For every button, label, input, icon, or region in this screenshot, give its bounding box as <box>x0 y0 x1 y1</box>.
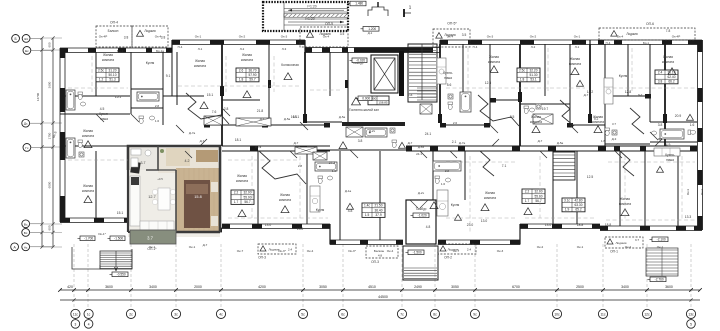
svg-text:Ок-4: Ок-4 <box>617 35 624 39</box>
svg-text:42.80: 42.80 <box>575 198 583 202</box>
envelope steps <box>171 40 173 53</box>
svg-text:59.7: 59.7 <box>249 78 255 82</box>
svg-text:Ок-3: Ок-3 <box>497 249 504 253</box>
svg-text:24.1: 24.1 <box>416 152 422 156</box>
svg-text:1750: 1750 <box>48 132 52 139</box>
svg-text:2.8: 2.8 <box>155 104 160 108</box>
svg-text:3.8: 3.8 <box>358 139 363 143</box>
svg-text:Ок-3*: Ок-3* <box>348 249 357 253</box>
table apt 2.2 left <box>231 190 254 204</box>
svg-text:-2.760: -2.760 <box>655 278 664 282</box>
svg-text:ниша: ниша <box>100 117 108 121</box>
svg-text:57.90: 57.90 <box>249 73 257 77</box>
balcony 4.8 x366 <box>366 246 398 258</box>
svg-text:36.70: 36.70 <box>249 68 257 72</box>
svg-text:Жс: Жс <box>24 37 29 41</box>
plant bedroom corner <box>213 150 217 154</box>
bath cluster x433 bottom apt <box>433 161 461 171</box>
svg-text:62.40: 62.40 <box>668 75 676 79</box>
svg-text:4.2: 4.2 <box>185 159 190 163</box>
svg-text:13.0: 13.0 <box>481 219 488 223</box>
svg-text:3.8: 3.8 <box>161 36 166 40</box>
svg-text:Л-1: Л-1 <box>198 47 203 51</box>
bottom wall colored apt bedroom <box>176 227 222 229</box>
svg-text:комната: комната <box>484 196 496 200</box>
svg-text:32.00: 32.00 <box>244 191 252 195</box>
svg-text:Гс: Гс <box>25 146 29 150</box>
svg-text:1.7: 1.7 <box>525 199 530 203</box>
svg-text:комната: комната <box>236 179 248 183</box>
svg-text:Д-5а: Д-5а <box>284 117 291 121</box>
svg-text:Ок-4: Ок-4 <box>323 35 330 39</box>
svg-text:Д-5а: Д-5а <box>557 141 564 145</box>
interior horizontal walls mid <box>60 95 130 97</box>
svg-text:Л-1: Л-1 <box>575 45 580 49</box>
svg-text:Жилая: Жилая <box>485 191 495 195</box>
svg-text:19.7: 19.7 <box>542 107 549 111</box>
svg-text:Д-7: Д-7 <box>294 141 299 145</box>
svg-text:2500: 2500 <box>576 285 584 289</box>
table apt 2.2 right <box>522 189 545 203</box>
svg-text:9с: 9с <box>473 312 477 316</box>
svg-text:Л-3: Л-3 <box>282 47 287 51</box>
svg-text:Д-7: Д-7 <box>538 139 543 143</box>
svg-text:Д-7а: Д-7а <box>255 145 262 149</box>
bedroom upper stripe <box>166 148 190 166</box>
svg-text:Балкон: Балкон <box>108 29 119 33</box>
staircase top <box>408 44 437 102</box>
svg-text:Ок-3*: Ок-3* <box>278 249 287 253</box>
svg-text:Д-3: Д-3 <box>612 137 617 141</box>
svg-text:13.0: 13.0 <box>545 223 552 227</box>
svg-text:53.1: 53.1 <box>530 78 536 82</box>
apt balcony <box>130 230 176 244</box>
bottom wall x330-403 <box>330 239 403 241</box>
svg-text:3600: 3600 <box>665 285 673 289</box>
svg-text:2.5с: 2.5с <box>519 68 525 72</box>
svg-text:П-4: П-4 <box>178 45 183 49</box>
svg-text:Жилая: Жилая <box>531 115 541 119</box>
svg-text:18.8: 18.8 <box>605 223 612 227</box>
left axis circles <box>12 35 20 43</box>
svg-text:3.7: 3.7 <box>612 122 616 126</box>
svg-text:5с: 5с <box>301 312 305 316</box>
bath cluster x315 bottom-left apts <box>315 162 337 171</box>
kitchen counters apt <box>130 176 140 226</box>
svg-text:27.3: 27.3 <box>329 161 336 165</box>
svg-text:1.4с: 1.4с <box>364 204 370 208</box>
svg-text:Кухня-: Кухня- <box>665 153 675 157</box>
svg-text:2.5с: 2.5с <box>98 68 104 72</box>
svg-text:-0.550: -0.550 <box>117 273 126 277</box>
svg-text:31.20: 31.20 <box>109 68 117 72</box>
svg-text:12.7: 12.7 <box>148 195 155 199</box>
svg-text:комната: комната <box>279 198 291 202</box>
svg-text:Ок-3: Ок-3 <box>686 189 690 195</box>
svg-text:комната: комната <box>530 120 542 124</box>
svg-text:51.30: 51.30 <box>530 73 538 77</box>
svg-text:3.7: 3.7 <box>635 238 640 242</box>
svg-text:13.0: 13.0 <box>265 223 272 227</box>
ramp lanes <box>284 8 348 10</box>
loggia box x433 <box>433 29 470 47</box>
svg-text:Д-7: Д-7 <box>638 93 643 97</box>
svg-text:Кухня: Кухня <box>146 61 155 65</box>
svg-text:3600: 3600 <box>105 285 113 289</box>
svg-text:7.1: 7.1 <box>502 164 507 168</box>
balcony box OP-4 <box>96 26 132 47</box>
bottom wall x520-600 <box>520 223 600 225</box>
svg-text:2с: 2с <box>129 312 133 316</box>
apt walls <box>128 146 220 232</box>
svg-text:1с: 1с <box>87 312 91 316</box>
bottom wall x600-702 <box>600 225 702 227</box>
svg-text:3.8: 3.8 <box>124 36 129 40</box>
svg-text:Ок-7: Ок-7 <box>453 249 460 253</box>
svg-text:Балкон: Балкон <box>374 249 385 253</box>
svg-text:16.1: 16.1 <box>291 115 298 119</box>
loggia 2.4 x258 <box>258 244 296 254</box>
svg-text:Ок-1: Ок-1 <box>574 35 581 39</box>
svg-text:Дс: Дс <box>24 122 28 126</box>
total dimension 44500 <box>60 299 700 301</box>
svg-text:i=1:20: i=1:20 <box>307 5 316 9</box>
svg-text:-1.020: -1.020 <box>418 214 427 218</box>
svg-text:Бр-1: Бр-1 <box>117 49 123 53</box>
svg-text:2.6: 2.6 <box>453 121 458 125</box>
outside stair bottom-right <box>646 248 678 276</box>
svg-text:12.5: 12.5 <box>485 81 492 85</box>
svg-text:50.10: 50.10 <box>109 73 117 77</box>
bath cluster x433 top <box>460 92 471 112</box>
svg-text:3050: 3050 <box>451 285 459 289</box>
closet xbox x204 <box>204 116 222 125</box>
bathroom floor <box>130 148 158 170</box>
mid wall piers <box>204 123 210 128</box>
svg-text:Жилая: Жилая <box>663 55 673 59</box>
svg-text:8с: 8с <box>433 312 437 316</box>
svg-text:7.8: 7.8 <box>666 29 671 33</box>
svg-text:Д-7: Д-7 <box>408 141 413 145</box>
kitchen strip x308 bottom <box>310 186 320 212</box>
svg-text:Д-7а: Д-7а <box>189 131 196 135</box>
svg-text:2.8: 2.8 <box>224 107 229 111</box>
svg-text:2.8: 2.8 <box>408 93 413 97</box>
outside stair bottom-left <box>72 247 132 269</box>
svg-text:Колясочная: Колясочная <box>281 63 299 67</box>
svg-text:Жилая: Жилая <box>280 193 290 197</box>
bottom axis circles <box>71 309 80 318</box>
corridor wall piers <box>138 146 144 151</box>
bath cluster x365 corridor <box>365 128 387 137</box>
svg-text:Ок-2: Ок-2 <box>239 35 246 39</box>
kitchen strip x604 right block <box>604 78 613 104</box>
svg-text:13с: 13с <box>688 312 694 316</box>
svg-text:Жилая: Жилая <box>103 53 113 57</box>
bottom dimension line <box>60 289 700 291</box>
svg-text:Ок-4: Ок-4 <box>447 35 454 39</box>
svg-text:12с: 12с <box>644 312 650 316</box>
triangles <box>84 196 92 203</box>
loggia box x300 <box>300 27 348 47</box>
kitchen bottom counter apt <box>140 221 174 230</box>
tv stand <box>130 161 140 173</box>
svg-text:1.480: 1.480 <box>355 2 363 6</box>
svg-text:Ок-1: Ок-1 <box>577 245 584 249</box>
section mark 1 <box>403 9 405 17</box>
svg-text:8.5: 8.5 <box>510 115 515 119</box>
svg-text:ОП-1*: ОП-1* <box>147 247 157 251</box>
svg-text:ОП-5*: ОП-5* <box>447 22 457 26</box>
svg-text:-0.020: -0.020 <box>356 59 365 63</box>
svg-text:6с: 6с <box>341 312 345 316</box>
svg-text:51.3: 51.3 <box>109 78 115 82</box>
svg-text:9.1: 9.1 <box>166 74 171 78</box>
svg-text:Кухня: Кухня <box>316 208 325 212</box>
bath cluster right block <box>660 129 684 139</box>
table apt 3.1c <box>562 198 585 212</box>
bath fixtures apt <box>131 149 141 155</box>
svg-text:12.5: 12.5 <box>587 175 594 179</box>
svg-text:15.1: 15.1 <box>115 95 122 99</box>
elevator shaft <box>371 55 398 93</box>
svg-text:55.00: 55.00 <box>535 194 543 198</box>
svg-text:1.8: 1.8 <box>239 78 244 82</box>
svg-text:Кухня: Кухня <box>451 203 460 207</box>
svg-text:Д-7: Д-7 <box>584 93 589 97</box>
svg-text:5: 5 <box>690 322 692 326</box>
corridor double walls <box>130 145 218 147</box>
svg-text:Кухня-: Кухня- <box>99 112 109 116</box>
svg-text:комната: комната <box>488 60 500 64</box>
table corner 2.4 <box>655 70 678 84</box>
ramp border <box>263 2 348 31</box>
elevation markers mid <box>352 58 367 63</box>
svg-text:Ас: Ас <box>24 245 28 249</box>
svg-text:Жилая: Жилая <box>237 174 247 178</box>
interior vertical walls bottom <box>95 151 97 218</box>
svg-text:3.7: 3.7 <box>141 161 146 165</box>
svg-text:Жилая: Жилая <box>195 59 205 63</box>
table hall <box>368 96 389 105</box>
svg-text:600: 600 <box>48 225 52 230</box>
svg-text:2.4: 2.4 <box>288 248 293 252</box>
svg-text:i=1:20: i=1:20 <box>305 17 314 21</box>
svg-text:158.85: 158.85 <box>378 101 388 105</box>
svg-text:63.30: 63.30 <box>575 203 583 207</box>
svg-text:4.8: 4.8 <box>378 254 383 258</box>
svg-text:15.8: 15.8 <box>194 195 201 199</box>
svg-text:2.2: 2.2 <box>234 191 239 195</box>
svg-text:18.8: 18.8 <box>577 223 584 227</box>
svg-text:Жилая: Жилая <box>83 184 93 188</box>
svg-text:ниша: ниша <box>666 158 674 162</box>
svg-text:-1.500: -1.500 <box>114 237 123 241</box>
ramp arrows <box>288 9 344 11</box>
svg-text:Л-2: Л-2 <box>531 45 536 49</box>
svg-text:14700: 14700 <box>36 92 40 101</box>
svg-text:комната: комната <box>194 64 206 68</box>
svg-text:П-4: П-4 <box>473 45 478 49</box>
svg-text:Кухня: Кухня <box>619 74 628 78</box>
svg-text:3: 3 <box>75 322 77 326</box>
svg-text:2000: 2000 <box>194 285 202 289</box>
bedroom wood floor <box>176 168 220 232</box>
loggia 2.4 x438 <box>438 244 476 254</box>
svg-text:11с: 11с <box>600 312 605 316</box>
interior vertical walls top <box>95 52 97 96</box>
svg-text:П-4: П-4 <box>606 41 611 45</box>
svg-text:комната: комната <box>82 189 94 193</box>
svg-text:18.1: 18.1 <box>235 138 242 142</box>
svg-text:0.000: 0.000 <box>362 97 370 101</box>
svg-text:1.9: 1.9 <box>565 208 570 212</box>
svg-text:6000: 6000 <box>48 181 52 188</box>
bath cluster x525 top <box>524 106 529 109</box>
door diagonals corridor <box>185 151 192 158</box>
outer wall top E x590-702 y40 <box>590 39 702 41</box>
bedroom plank lines <box>178 168 180 232</box>
svg-text:Ок-1*: Ок-1* <box>98 232 107 236</box>
svg-text:4200: 4200 <box>258 285 266 289</box>
bath cluster x604 right mid <box>605 128 610 131</box>
outer wall top C x305-440 y47 <box>305 47 440 49</box>
closet boxes <box>295 147 317 154</box>
svg-text:Ок-1: Ок-1 <box>189 245 196 249</box>
svg-text:15.1: 15.1 <box>207 93 214 97</box>
outer wall top A x60-172 y48 <box>60 47 172 49</box>
svg-text:3600: 3600 <box>48 81 52 88</box>
svg-text:6700: 6700 <box>512 285 520 289</box>
svg-text:Ок-2: Ок-2 <box>537 245 544 249</box>
svg-text:20.9: 20.9 <box>675 114 682 118</box>
svg-text:4.5: 4.5 <box>100 107 105 111</box>
svg-text:56.7: 56.7 <box>244 200 250 204</box>
svg-text:Ес: Ес <box>25 49 29 53</box>
hallway floor <box>158 148 218 173</box>
table apt 2.5c right <box>517 68 540 82</box>
svg-text:1.2: 1.2 <box>99 78 104 82</box>
svg-text:Л-2: Л-2 <box>240 47 245 51</box>
svg-text:Ок-3: Ок-3 <box>281 35 288 39</box>
svg-text:3.8: 3.8 <box>658 80 663 84</box>
svg-text:4с: 4с <box>219 312 223 316</box>
svg-text:1.7: 1.7 <box>234 200 239 204</box>
svg-text:56.7: 56.7 <box>535 199 541 203</box>
svg-text:3400: 3400 <box>149 285 157 289</box>
table apt 2.5c left <box>96 68 119 82</box>
svg-text:21.8: 21.8 <box>257 109 264 113</box>
svg-text:Гостинно-жилой зал: Гостинно-жилой зал <box>349 108 379 112</box>
svg-text:12.8: 12.8 <box>625 90 632 94</box>
svg-text:2.2: 2.2 <box>525 190 530 194</box>
svg-text:4: 4 <box>88 322 90 326</box>
svg-text:3.8: 3.8 <box>658 123 663 127</box>
svg-text:5.6: 5.6 <box>447 83 452 87</box>
outer wall top D x440-590 y40 <box>440 39 590 41</box>
dining table <box>158 188 170 210</box>
svg-text:Д-1а: Д-1а <box>345 189 352 193</box>
svg-text:Д-7: Д-7 <box>203 243 208 247</box>
svg-text:1.6: 1.6 <box>332 169 337 173</box>
svg-text:21.50: 21.50 <box>375 204 383 208</box>
svg-text:Жилая: Жилая <box>83 129 93 133</box>
svg-text:66.2: 66.2 <box>668 80 674 84</box>
kitchen right corner <box>654 148 680 156</box>
svg-text:+0.5: +0.5 <box>157 177 163 181</box>
right outer wall <box>697 40 699 230</box>
svg-text:Ок-3: Ок-3 <box>487 35 494 39</box>
svg-text:комната: комната <box>241 58 253 62</box>
vestibule <box>406 200 436 244</box>
svg-text:Лоджия: Лоджия <box>626 32 638 36</box>
loggia band OP-6 <box>599 28 695 40</box>
svg-text:3с: 3с <box>174 312 178 316</box>
svg-text:комната: комната <box>82 134 94 138</box>
svg-text:Д-7: Д-7 <box>260 117 265 121</box>
bottom wall left block <box>60 217 130 219</box>
svg-text:Лоджия: Лоджия <box>144 29 156 33</box>
svg-text:1.8: 1.8 <box>520 78 525 82</box>
svg-text:3.7: 3.7 <box>147 236 153 241</box>
svg-text:-1.500: -1.500 <box>413 251 422 255</box>
corridor dark band <box>342 122 405 126</box>
svg-text:Д-5а: Д-5а <box>339 115 346 119</box>
svg-text:13.0: 13.0 <box>297 227 304 231</box>
zigzag apartment boundaries <box>186 93 229 124</box>
svg-text:ОП-3: ОП-3 <box>258 256 266 260</box>
kitchen strip x437 bottom <box>437 190 448 216</box>
svg-text:3.5: 3.5 <box>340 32 345 36</box>
svg-text:4.9: 4.9 <box>666 143 671 147</box>
svg-text:1.6: 1.6 <box>155 119 160 123</box>
bath cluster left block lower <box>66 138 75 158</box>
svg-text:9.2: 9.2 <box>594 117 599 121</box>
svg-text:Бс: Бс <box>24 231 28 235</box>
svg-text:Ок-7: Ок-7 <box>237 249 244 253</box>
svg-text:Д-7: Д-7 <box>200 139 205 143</box>
faint interior dimension strings <box>68 87 128 89</box>
svg-text:32.00: 32.00 <box>535 190 543 194</box>
internal stair right block <box>553 152 575 180</box>
apt partitions <box>146 146 158 170</box>
svg-text:Ок-4: Ок-4 <box>155 35 162 39</box>
svg-text:44500: 44500 <box>378 295 388 299</box>
svg-text:Бр-1: Бр-1 <box>643 41 649 45</box>
elevation 1.480 <box>350 1 366 6</box>
svg-text:3.5: 3.5 <box>462 33 467 37</box>
table apt 1.4c <box>362 203 385 217</box>
svg-text:420: 420 <box>67 285 73 289</box>
svg-text:Вс: Вс <box>24 222 28 226</box>
svg-text:Ок-4Р: Ок-4Р <box>99 35 108 39</box>
svg-text:ОП-1: ОП-1 <box>610 250 618 254</box>
svg-text:Д-3: Д-3 <box>658 137 663 141</box>
svg-text:4510: 4510 <box>368 285 376 289</box>
outer wall top B x172-305 y40 <box>172 39 305 41</box>
svg-text:Ок-3: Ок-3 <box>700 189 704 195</box>
apt floor base <box>128 146 220 237</box>
svg-text:1.5: 1.5 <box>365 213 370 217</box>
svg-text:Кухня-: Кухня- <box>443 71 453 75</box>
entry canopy <box>368 7 388 16</box>
kitchen niche strip x437 top <box>437 58 446 84</box>
svg-text:2.4: 2.4 <box>467 248 472 252</box>
svg-text:2.4: 2.4 <box>658 70 663 74</box>
svg-text:Д-2х: Д-2х <box>369 129 376 133</box>
vertical wall pier blobs <box>220 86 224 96</box>
svg-text:Ок-4: Ок-4 <box>387 249 394 253</box>
